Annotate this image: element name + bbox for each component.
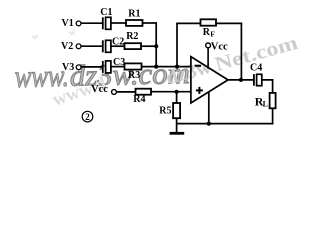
wire op-amp ground pin (208, 92, 210, 124)
capacitor C1 (103, 17, 111, 29)
wire bus vertical (155, 22, 157, 66)
watermark tick 1 (30, 30, 40, 42)
capacitor C4 (254, 74, 262, 86)
svg-text:V2: V2 (61, 41, 73, 52)
op-amp minus sign (195, 65, 202, 67)
wire C4 to RL (262, 80, 273, 93)
node feedback-input junction (175, 65, 179, 69)
node Vcc left terminal (112, 90, 117, 95)
node V1 terminal (76, 21, 81, 26)
node bus-R2 junction (154, 44, 158, 48)
svg-text:R1: R1 (128, 8, 140, 19)
svg-text:L: L (263, 100, 268, 109)
watermark top-right Net.com (163, 56, 214, 90)
wire RL to bottom rail (272, 108, 274, 124)
svg-text:V3: V3 (62, 62, 74, 73)
wire R2 to bus (141, 45, 156, 47)
svg-text:V1: V1 (62, 18, 74, 29)
resistor R2 (125, 43, 142, 49)
wire V3 to C3 (81, 66, 103, 68)
node R5 junction (175, 90, 179, 94)
node ground pin junction (207, 122, 211, 126)
watermark main www.dz3w.com (14, 58, 69, 94)
node V3 terminal (76, 65, 81, 70)
wire R4 to op-amp non-inverting input (151, 91, 192, 93)
node bus-R3 junction (154, 65, 158, 69)
wire feedback top left segment (176, 22, 201, 24)
svg-text:C4: C4 (250, 62, 262, 73)
label RF (203, 27, 216, 39)
wire R3 to op-amp inverting input (142, 66, 192, 68)
wire C2 to R2 (111, 45, 125, 47)
ground (170, 132, 185, 135)
wire C3 to R3 (111, 66, 125, 68)
svg-text:Vcc: Vcc (211, 41, 228, 52)
resistor R5 (173, 103, 180, 118)
svg-text:R3: R3 (128, 70, 140, 81)
label RL (255, 95, 268, 109)
op-amp plus sign (196, 87, 203, 94)
node output-feedback junction (239, 78, 243, 82)
resistor R4 (136, 89, 152, 95)
svg-text:R4: R4 (133, 94, 145, 105)
node Vcc pin terminal (206, 43, 211, 69)
svg-text:R2: R2 (126, 31, 138, 42)
wire C1 to R1 (111, 22, 127, 24)
capacitor C2 (103, 40, 111, 52)
svg-text:w: w (30, 30, 40, 42)
wire bottom rail (177, 123, 274, 125)
resistor RL (270, 93, 276, 108)
wire feedback left vertical (176, 23, 178, 66)
wire feedback top right segment (216, 22, 242, 24)
label circled 2 (82, 111, 93, 122)
watermark faint www lower (50, 73, 110, 111)
resistor RF (201, 19, 217, 25)
svg-text:2: 2 (85, 112, 90, 122)
wire R1 to bus (143, 22, 158, 24)
wire Vcc to R4 (116, 91, 136, 93)
svg-text:F: F (210, 30, 215, 39)
wire R5 bottom stem (176, 118, 178, 132)
svg-text:Vcc: Vcc (91, 84, 108, 95)
svg-text:R5: R5 (159, 105, 171, 116)
wire R5 top stem (176, 92, 178, 104)
wire V2 to C2 (81, 45, 103, 47)
resistor R3 (125, 63, 142, 69)
op-amp U1 (191, 57, 228, 103)
svg-text:C1: C1 (100, 7, 112, 18)
node V2 terminal (76, 44, 81, 49)
wire V1 to C1 (81, 22, 103, 24)
wire feedback right vertical (240, 23, 242, 80)
capacitor C3 (103, 61, 111, 73)
watermark tick 2 (67, 26, 77, 38)
wire op-amp output (228, 79, 253, 81)
resistor R1 (126, 20, 143, 26)
